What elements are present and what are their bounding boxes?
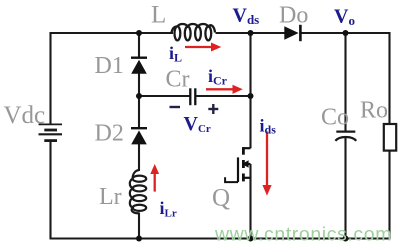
- svg-text:Vdc: Vdc: [4, 102, 46, 129]
- current arrow iCr: [206, 85, 243, 94]
- svg-text:Lr: Lr: [99, 184, 122, 210]
- wire D branch mid: [138, 74, 140, 128]
- junction Lr / bottom rail: [136, 236, 142, 242]
- svg-text:Co: Co: [321, 104, 349, 130]
- battery Vdc: [39, 124, 63, 140]
- svg-text:Ro: Ro: [360, 97, 388, 123]
- junction node Vds: [248, 30, 254, 36]
- current arrow ids: [262, 132, 271, 196]
- current arrow iL: [185, 43, 221, 52]
- capacitor Cr: [190, 88, 195, 105]
- transistor Q: [225, 147, 250, 182]
- junction Cr right / Q drain branch: [248, 93, 254, 99]
- wire Q source to bottom rail: [249, 164, 251, 239]
- svg-text:Q: Q: [212, 185, 230, 212]
- wire right rail lower: [388, 151, 390, 239]
- wire Vds branch: [249, 33, 251, 148]
- svg-text:D1: D1: [95, 53, 124, 79]
- wire Cr branch left: [139, 95, 190, 97]
- diode D1: [131, 58, 147, 74]
- capacitor Co: [335, 132, 356, 141]
- svg-text:D2: D2: [95, 121, 124, 147]
- resistor Ro: [384, 124, 396, 151]
- junction Co / bottom rail: [343, 236, 349, 242]
- svg-text:Do: Do: [279, 3, 308, 29]
- junction node Vo: [343, 30, 349, 36]
- wire bottom rail: [50, 237, 391, 239]
- svg-text:L: L: [151, 1, 166, 28]
- inductor Lr: [130, 170, 146, 213]
- wire D branch top: [138, 33, 140, 57]
- svg-text:Cr: Cr: [166, 67, 190, 93]
- plus sign: [208, 104, 218, 114]
- minus sign: [170, 106, 181, 108]
- diode Do: [284, 25, 300, 41]
- wire top rail mid (L to Do): [216, 32, 285, 34]
- wire Co to bottom rail: [344, 138, 346, 239]
- svg-text:www.cntronics.com: www.cntronics.com: [214, 224, 392, 246]
- wire Cr branch right: [196, 95, 251, 97]
- junction Cr left / D branch: [136, 93, 142, 99]
- wire Vo branch upper: [344, 33, 346, 132]
- wire Lr to bottom rail: [138, 213, 140, 239]
- wire top rail right and right rail upper: [301, 33, 390, 124]
- wire D2 to Lr: [138, 144, 140, 171]
- junction D1 cathode / top rail: [136, 30, 142, 36]
- current arrow iLr: [150, 164, 159, 192]
- wire left rail and top-left corner: [51, 33, 174, 125]
- diode D2: [131, 128, 147, 144]
- junction Q source / bottom rail: [248, 236, 254, 242]
- wire left rail below battery: [49, 141, 51, 239]
- inductor L: [172, 24, 216, 40]
